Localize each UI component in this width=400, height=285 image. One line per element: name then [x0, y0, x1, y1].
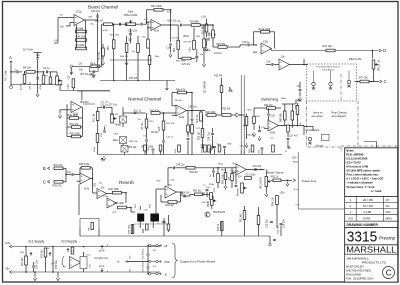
svg-text:ICZa: ICZa [167, 11, 173, 13]
junction [240, 114, 242, 116]
resistor R2A [191, 24, 200, 27]
junction [217, 167, 219, 169]
svg-text:C23 22n: C23 22n [128, 30, 138, 33]
wire [129, 261, 149, 263]
pot VR4a [56, 76, 62, 85]
wire IC1a -in [58, 17, 74, 19]
down arrow pin4 [101, 268, 103, 272]
wire [274, 64, 279, 66]
resistor R71 [25, 256, 28, 265]
svg-text:DRN.: DRN. [386, 217, 393, 221]
resistor R20a [144, 145, 147, 151]
wire [67, 136, 72, 138]
resistor R20 [178, 145, 181, 152]
wire [35, 71, 45, 73]
wire [177, 201, 181, 203]
svg-text:C48 2u2: C48 2u2 [201, 202, 210, 204]
wire [66, 127, 68, 137]
svg-text:VR8 C100k: VR8 C100k [141, 145, 154, 148]
capacitor C10b [162, 141, 165, 142]
resistor R48 [76, 39, 87, 42]
wire [191, 93, 193, 111]
resistor R45 [287, 125, 290, 132]
ground [33, 276, 36, 281]
junction [125, 192, 127, 194]
svg-text:R75 1k: R75 1k [218, 223, 220, 231]
junction [25, 246, 27, 248]
capacitor C25b [258, 130, 261, 131]
wire [82, 118, 84, 127]
capacitor C11 [103, 106, 104, 109]
wire [131, 211, 135, 213]
wire [122, 107, 124, 116]
wire [72, 78, 74, 80]
wire [253, 124, 255, 131]
wire [191, 111, 193, 125]
wire [212, 39, 214, 48]
pot VR10a [372, 60, 378, 69]
wire long bus [243, 75, 245, 150]
terminal row GND [149, 260, 162, 262]
svg-text:C17 100n: C17 100n [246, 174, 257, 176]
wire -15 rail [12, 271, 160, 273]
wire [240, 114, 244, 116]
wire IC2b -in [147, 21, 152, 23]
svg-text:IC1a: IC1a [76, 11, 82, 14]
reverb transducer T2 [150, 214, 159, 222]
svg-text:R48: R48 [143, 228, 145, 233]
wire [259, 126, 261, 130]
capacitor C24b [211, 133, 214, 134]
junction [25, 271, 27, 273]
ground [265, 192, 268, 197]
wire [212, 25, 214, 30]
svg-text:R27 220k: R27 220k [151, 5, 162, 8]
box FSB [322, 135, 330, 141]
resistor R48c [91, 223, 94, 230]
svg-text:see power: see power [312, 115, 324, 118]
resistor R6 [76, 30, 87, 33]
svg-text:C32 22u: C32 22u [267, 219, 269, 228]
wire [213, 46, 218, 48]
jack FX send [329, 82, 333, 89]
svg-text:ISS.: ISS. [349, 217, 355, 221]
wire normal ground rail [98, 154, 282, 156]
resistor R21b [245, 177, 252, 180]
svg-text:R60 1M: R60 1M [190, 172, 198, 174]
wire [79, 229, 81, 237]
wire [191, 58, 195, 60]
capacitor C14 [272, 63, 273, 66]
svg-text:VR5a C100k: VR5a C100k [124, 14, 138, 17]
svg-text:VR5 10k: VR5 10k [128, 147, 138, 149]
wire rail y80 [77, 90, 110, 92]
wire [244, 220, 246, 237]
svg-text:+ indicates clockwise: + indicates clockwise [346, 181, 373, 185]
resistor R55 [148, 56, 151, 65]
svg-text:R15: R15 [159, 126, 161, 131]
input B [43, 166, 50, 171]
wire [193, 28, 195, 41]
notes box [345, 148, 398, 197]
wire [210, 151, 212, 155]
wire [276, 194, 278, 197]
wire [50, 72, 52, 77]
junction [113, 23, 115, 25]
pot box VR3 [120, 137, 127, 144]
svg-text:C25 10u: C25 10u [30, 81, 32, 90]
wire [81, 126, 83, 128]
wire rail y236 [80, 235, 270, 237]
wire [201, 24, 214, 26]
svg-text:VR4a: VR4a [62, 80, 64, 86]
svg-text:Power Amp: Power Amp [302, 179, 317, 183]
wire [163, 130, 165, 140]
svg-text:R57 1M: R57 1M [184, 42, 192, 44]
wire [25, 265, 27, 272]
wire [85, 40, 87, 49]
svg-text:+15v: +15v [292, 158, 298, 160]
junction [372, 50, 374, 52]
capacitor C30 [206, 189, 209, 190]
resistor R54 [147, 39, 150, 48]
capacitor C3 [37, 77, 38, 80]
capacitor C16b [169, 44, 172, 45]
svg-text:+15v: +15v [280, 192, 286, 194]
resistor R29 [217, 174, 220, 183]
svg-text:File: 3315PRE.SCH: File: 3315PRE.SCH [346, 276, 373, 280]
wire [268, 108, 270, 113]
wire [299, 92, 301, 97]
wire [163, 218, 165, 236]
wire [235, 174, 237, 185]
resistor R65 [251, 145, 254, 152]
svg-text:R52 100k: R52 100k [70, 133, 81, 136]
output D [379, 48, 386, 53]
svg-text:A = LOG B = LIN C = Anti-LOG: A = LOG B = LIN C = Anti-LOG [346, 177, 383, 181]
svg-text:PCB: JMP30B: PCB: JMP30B [346, 152, 363, 156]
svg-text:VR10a 10k: VR10a 10k [379, 59, 381, 71]
wire [163, 9, 171, 11]
svg-text:C59 1000u: C59 1000u [143, 248, 145, 259]
svg-text:+15v: +15v [295, 100, 301, 102]
resistor R11a [96, 134, 99, 143]
wire [330, 71, 332, 83]
wire [203, 25, 205, 39]
wire [130, 36, 132, 44]
svg-text:Terman notes: f = front: Terman notes: f = front [346, 185, 374, 189]
supply arrow pin8 [101, 246, 103, 250]
wire [76, 32, 78, 41]
wire [187, 92, 193, 94]
wire long IC1a out down [97, 20, 99, 66]
resistor R16 [200, 112, 203, 121]
svg-text:R9a 47k: R9a 47k [176, 89, 186, 92]
resistor R22 [54, 167, 63, 170]
curved arrow IC3 [62, 256, 64, 267]
resistor R69 [231, 174, 234, 181]
wire [187, 111, 189, 126]
wire [291, 120, 293, 128]
junction circle [70, 65, 73, 68]
junction [52, 246, 54, 248]
drawing number strip [345, 221, 398, 227]
transistor TR1 [205, 212, 210, 217]
wire [34, 272, 36, 276]
wire [230, 167, 236, 169]
wire [81, 91, 83, 100]
pot VR13 [211, 196, 217, 205]
wire [227, 46, 240, 48]
svg-text:470p: 470p [103, 30, 109, 32]
wire IC2a +in [172, 114, 176, 116]
svg-text:pin 4: pin 4 [99, 265, 105, 268]
svg-text:IC4a: IC4a [84, 188, 90, 191]
svg-text:IC1,2,5,6 MC4558: IC1,2,5,6 MC4558 [346, 156, 368, 160]
wire [291, 104, 293, 111]
svg-text:R21 4k7: R21 4k7 [240, 213, 242, 222]
wire bus y50 [272, 50, 379, 52]
op-amp IC6b [268, 120, 278, 131]
wire [160, 151, 162, 155]
wire [191, 134, 193, 155]
svg-text:Master Volume: Master Volume [267, 171, 284, 174]
svg-text:CPs: CPs [386, 210, 392, 214]
resistor R73 [71, 247, 74, 254]
wire [212, 136, 214, 149]
wire [37, 72, 39, 77]
svg-text:+15v: +15v [5, 241, 11, 245]
svg-text:R57: R57 [174, 47, 176, 52]
resistor R7 [104, 23, 113, 26]
resistor R60 [186, 167, 195, 170]
wire [57, 42, 59, 44]
resistor R17 [191, 125, 194, 134]
svg-text:B: B [43, 166, 46, 171]
capacitor C6 [119, 23, 120, 26]
wire [172, 105, 176, 107]
dash-dot vertical x341 [340, 74, 342, 100]
wire [136, 23, 140, 25]
svg-text:R48 220k: R48 220k [76, 36, 87, 39]
svg-text:+15v: +15v [201, 17, 207, 19]
resistor R63 [224, 173, 227, 180]
junction [163, 112, 165, 114]
wire [177, 25, 179, 40]
svg-text:+B: +B [164, 245, 167, 248]
svg-text:4-1-88: 4-1-88 [363, 210, 372, 214]
svg-text:+15v -15v: +15v -15v [167, 21, 178, 23]
wire [146, 10, 148, 22]
revision table [345, 196, 398, 221]
svg-text:FCL 1/4w: FCL 1/4w [5, 71, 8, 81]
junction [147, 261, 149, 263]
wire [297, 121, 299, 127]
op-amp IC1a [74, 15, 85, 26]
svg-text:Normal Channel: Normal Channel [128, 97, 161, 102]
junction [170, 24, 172, 26]
wire [155, 189, 157, 215]
wire [217, 183, 219, 189]
resistor R57 [177, 40, 180, 49]
resistor R30 [113, 191, 122, 194]
svg-text:A Footswitch: A Footswitch [305, 129, 320, 132]
input A arrow [10, 61, 12, 65]
resistor R37 [245, 117, 248, 126]
wire [144, 151, 146, 155]
resistor R21 [243, 211, 246, 220]
svg-text:C57a: C57a [86, 255, 92, 257]
junction [191, 110, 193, 112]
svg-text:Volume: Volume [203, 50, 211, 52]
junction [83, 246, 85, 248]
resistor R61 [182, 57, 191, 60]
wire [189, 194, 191, 196]
brace supply [172, 243, 178, 278]
svg-text:C38 22n: C38 22n [284, 219, 286, 228]
svg-text:R43 56k: R43 56k [281, 113, 283, 122]
wire IC2b out [162, 24, 179, 26]
svg-text:R66a: R66a [293, 162, 299, 164]
wire [180, 192, 182, 202]
svg-text:16.7 kHz: 16.7 kHz [23, 49, 34, 52]
title block outer [345, 148, 398, 282]
wire [98, 106, 103, 108]
svg-text:C: C [384, 79, 387, 84]
wire [303, 127, 305, 136]
wire [206, 32, 208, 37]
capacitor C23b [261, 148, 264, 149]
capacitor C55b [32, 266, 35, 267]
svg-text:R48 100k: R48 100k [129, 224, 131, 234]
wire [132, 224, 134, 234]
reverb tank dashed [135, 223, 157, 225]
capacitor C32 [270, 221, 273, 222]
resistor R38 [253, 117, 256, 124]
ground [252, 132, 255, 137]
svg-text:R11 1M: R11 1M [94, 114, 96, 122]
svg-text:C8 50n: C8 50n [151, 132, 159, 134]
wire [265, 187, 267, 193]
supply arrow [30, 253, 32, 257]
wire [166, 81, 168, 87]
wire [239, 45, 241, 47]
wire [369, 81, 374, 83]
ground [56, 276, 59, 281]
svg-text:C10 1u: C10 1u [166, 137, 174, 139]
svg-text:R61a: R61a [218, 164, 224, 166]
wire [85, 32, 87, 41]
reverb transducer T1 [137, 214, 144, 222]
pot VR12 [265, 177, 271, 187]
junction [130, 207, 132, 209]
wire [258, 225, 260, 237]
wire [93, 192, 98, 194]
svg-text:b = back: b = back [371, 189, 382, 193]
wire [303, 59, 305, 65]
svg-text:VR2 1M: VR2 1M [110, 114, 118, 116]
svg-text:R23 1k: R23 1k [271, 177, 279, 179]
wire [126, 36, 128, 44]
jack footswitch [312, 82, 316, 89]
wire [203, 48, 205, 62]
svg-text:DATE: DATE [363, 217, 370, 221]
wire [268, 116, 270, 121]
wire to effects mix [372, 51, 374, 59]
junction [92, 178, 94, 180]
wire [206, 41, 208, 46]
wire [52, 247, 54, 263]
op-amp IC2b [151, 20, 161, 31]
resistor R19 [220, 86, 223, 93]
resistor VR7 [212, 30, 215, 38]
wire [98, 229, 100, 237]
svg-text:C20: C20 [68, 75, 70, 80]
wire [92, 179, 94, 194]
wire [33, 268, 35, 272]
wire [168, 167, 173, 169]
wire long down [78, 184, 80, 215]
svg-text:C18 10n: C18 10n [253, 166, 262, 168]
wire [168, 215, 170, 232]
capacitor C26 [267, 114, 270, 115]
svg-text:All resistors 1/4W: All resistors 1/4W [346, 165, 368, 169]
wire [37, 85, 39, 93]
wire [167, 167, 169, 169]
wire [83, 252, 85, 257]
capacitor C28 [299, 89, 302, 90]
wire [24, 72, 26, 75]
terminal row +B [149, 244, 162, 246]
ground [245, 143, 248, 148]
wire [160, 112, 176, 114]
svg-text:R5 100k: R5 100k [76, 44, 86, 47]
svg-text:A: A [9, 55, 12, 60]
wire FX send out [290, 64, 309, 66]
wire [176, 191, 182, 193]
wire [271, 179, 273, 181]
wire [274, 32, 276, 49]
wire [206, 19, 208, 25]
wire [313, 71, 315, 83]
wire [299, 82, 301, 89]
resistor R33 [168, 201, 177, 204]
ground rail boost2 [60, 90, 110, 92]
wire [190, 193, 195, 195]
wire [203, 193, 211, 195]
ground below rail [36, 92, 39, 97]
wire [80, 167, 81, 169]
svg-text:R16 10k: R16 10k [197, 114, 199, 123]
capacitor C60 [147, 267, 150, 268]
dash-dot boundary to title block [341, 145, 397, 147]
ground [201, 144, 204, 149]
svg-text:C11 1u C57 10n: C11 1u C57 10n [101, 105, 118, 107]
wire [113, 24, 115, 40]
wire [287, 141, 289, 149]
svg-text:VR12 A50k: VR12 A50k [260, 177, 263, 189]
wire [221, 93, 223, 114]
wire [102, 56, 104, 60]
wire [67, 117, 70, 119]
resistor R75 [221, 222, 224, 231]
ground [125, 61, 128, 66]
wire [206, 192, 208, 198]
resistor R51b [72, 126, 81, 129]
wire [70, 68, 72, 72]
junction [65, 174, 67, 176]
terminal +15v in [10, 245, 13, 248]
